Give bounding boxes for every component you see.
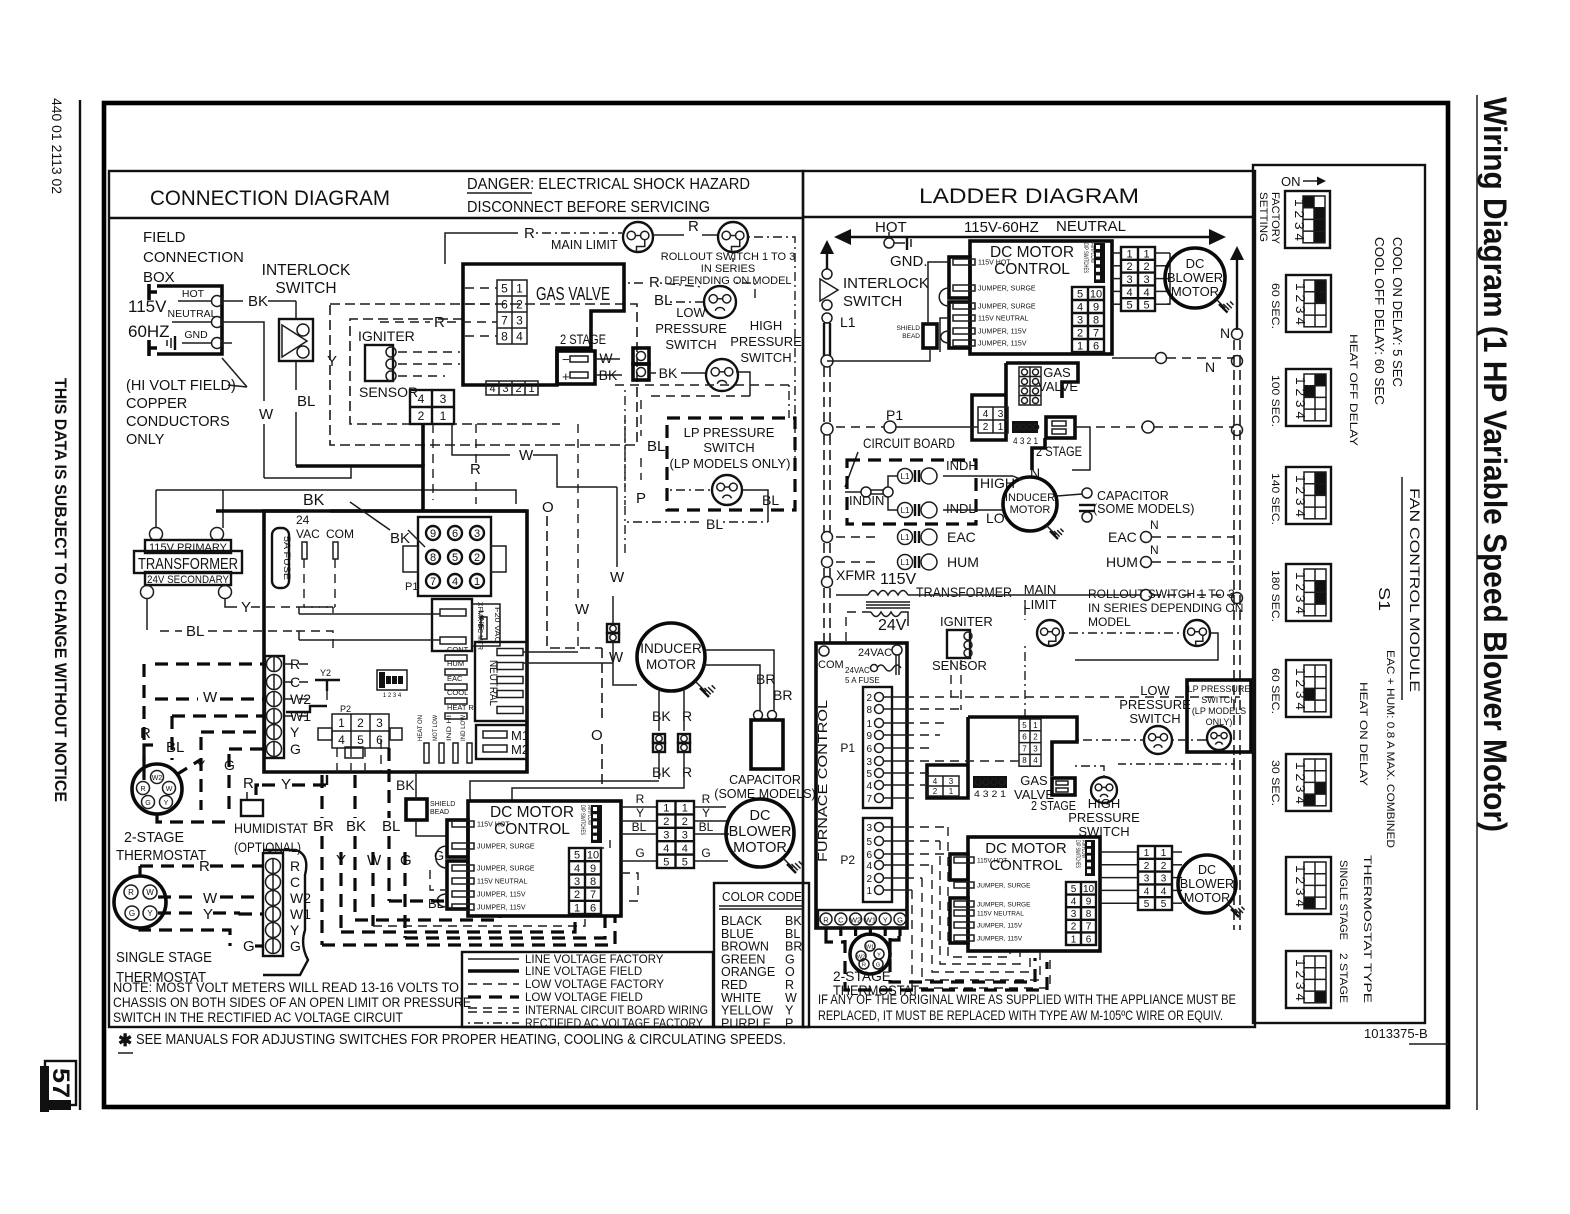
svg-text:1: 1	[1077, 340, 1083, 352]
svg-text:10: 10	[1090, 288, 1102, 300]
dip switch 30 sec	[1286, 754, 1331, 811]
ladder limit wires	[1063, 632, 1184, 634]
left rail	[823, 367, 825, 424]
terminal G upper strip	[267, 742, 282, 757]
svg-text:ON: ON	[1281, 174, 1301, 189]
legend rectified ac voltage factory	[468, 1022, 519, 1024]
circuit board outline	[264, 511, 527, 772]
svg-text:W: W	[203, 689, 218, 706]
svg-text:L1: L1	[901, 472, 910, 481]
pin pair R	[678, 734, 690, 743]
svg-text:PURPLE: PURPLE	[721, 1016, 771, 1030]
ladder 4321 strip	[1012, 421, 1038, 433]
svg-text:1: 1	[1143, 248, 1149, 260]
svg-text:SWITCH: SWITCH	[740, 350, 791, 365]
right rail junction xfmr row	[1141, 590, 1152, 601]
svg-text:7: 7	[430, 576, 436, 588]
svg-text:COOL ON DELAY: 5 SEC: COOL ON DELAY: 5 SEC	[1390, 237, 1405, 387]
svg-text:COM: COM	[326, 527, 354, 541]
wire neutral slot 1 to W	[523, 651, 578, 653]
svg-text:P1: P1	[840, 741, 855, 755]
ladder lower quad connector	[927, 776, 959, 796]
harness vertical BL	[387, 748, 390, 818]
svg-text:Y: Y	[147, 909, 153, 918]
svg-text:4: 4	[866, 861, 872, 872]
svg-text:GND: GND	[184, 329, 208, 341]
svg-text:LADDER DIAGRAM: LADDER DIAGRAM	[919, 185, 1139, 208]
pin pair W inducer	[607, 624, 619, 633]
svg-text:4: 4	[574, 863, 580, 875]
svg-text:LIMIT: LIMIT	[1023, 597, 1056, 612]
LP pressure switch contact	[712, 475, 742, 505]
svg-text:7: 7	[1022, 744, 1027, 753]
capacitor C1	[754, 711, 763, 720]
svg-text:G: G	[897, 916, 903, 925]
svg-text:R: R	[524, 225, 535, 242]
svg-text:GAS: GAS	[1020, 773, 1048, 788]
svg-text:5: 5	[1077, 288, 1083, 300]
svg-text:1: 1	[440, 409, 447, 423]
pin pair BK	[653, 734, 665, 743]
ladder rollout switch	[1184, 620, 1210, 646]
svg-text:2: 2	[933, 787, 938, 796]
svg-text:NEUTRAL: NEUTRAL	[1056, 218, 1126, 235]
furnace P2 connector	[863, 818, 892, 902]
svg-text:SWITCH: SWITCH	[1129, 711, 1180, 726]
connection diagram panel frame	[109, 171, 803, 1027]
wire from high pressure right	[736, 372, 750, 396]
dc motor control slots	[452, 821, 474, 827]
ladder harness staircase	[905, 696, 1240, 698]
inducer ground	[695, 681, 706, 692]
svg-text:W2: W2	[152, 775, 163, 782]
svg-text:XFMR: XFMR	[836, 567, 876, 583]
svg-text:W1: W1	[290, 906, 311, 922]
svg-text:Y: Y	[203, 906, 213, 923]
ladder 24V coil	[871, 612, 901, 617]
svg-text:4: 4	[1161, 886, 1167, 897]
furnace board edge blob	[263, 850, 308, 975]
svg-text:24: 24	[296, 513, 310, 527]
svg-text:DANGER: ELECTRICAL SHOCK HAZA: DANGER: ELECTRICAL SHOCK HAZARD	[467, 176, 750, 193]
svg-text:4: 4	[452, 576, 458, 588]
svg-text:60HZ: 60HZ	[128, 322, 170, 341]
svg-text:9: 9	[590, 863, 596, 875]
svg-text:−: −	[562, 352, 570, 367]
svg-text:HEAT ON: HEAT ON	[417, 715, 424, 741]
indin enclosure	[847, 460, 976, 524]
svg-text:BK: BK	[390, 530, 410, 547]
svg-text:SENSOR: SENSOR	[932, 658, 987, 673]
svg-text:3: 3	[574, 876, 580, 888]
terminal Y upper strip	[267, 725, 282, 740]
2-stage thermostat leads	[144, 745, 160, 770]
svg-text:DC: DC	[1198, 863, 1216, 877]
svg-text:S1: S1	[1375, 587, 1392, 611]
wire W from 2stage connector	[595, 358, 620, 360]
svg-text:MOTOR: MOTOR	[1010, 504, 1051, 516]
svg-text:3: 3	[1033, 744, 1038, 753]
svg-text:BLOWER: BLOWER	[1167, 270, 1223, 285]
svg-text:100 SEC.: 100 SEC.	[1269, 375, 1281, 427]
legend box	[462, 952, 713, 1027]
svg-text:2: 2	[682, 816, 688, 828]
furnace terminal W2	[850, 913, 862, 925]
igniter lead dashes	[398, 351, 460, 353]
svg-text:2: 2	[866, 693, 872, 704]
wire W dashed vertical	[577, 424, 579, 598]
P1 pin 7	[426, 574, 440, 588]
furnace control COM terminal	[819, 646, 829, 656]
svg-text:4 3 2 1: 4 3 2 1	[1013, 436, 1038, 446]
svg-text:Y: Y	[883, 916, 888, 925]
svg-text:1: 1	[1144, 848, 1150, 859]
ladder dcmc jumper arcs	[939, 288, 949, 306]
terminal strip R C W2 W1 Y G upper	[265, 656, 284, 758]
svg-text:LP PRESSURE: LP PRESSURE	[684, 425, 775, 440]
svg-text:180 SEC.: 180 SEC.	[1269, 570, 1281, 622]
svg-text:L1: L1	[901, 506, 910, 515]
svg-text:1: 1	[528, 383, 534, 395]
dcmc2 grid 5-10	[1066, 882, 1096, 945]
P1 pin 4	[448, 574, 462, 588]
svg-text:1 2 3 4: 1 2 3 4	[1293, 668, 1307, 710]
svg-text:F20 VAC: F20 VAC	[493, 607, 500, 643]
wire BR to capacitor right	[705, 650, 774, 711]
svg-text:115V NEUTRAL: 115V NEUTRAL	[977, 911, 1024, 918]
svg-text:BR: BR	[313, 818, 334, 835]
svg-text:AIRFLOW: AIRFLOW	[1089, 243, 1095, 263]
svg-text:3: 3	[376, 716, 383, 730]
svg-text:AIRFLOW: AIRFLOW	[586, 805, 592, 825]
sidebar frame	[1253, 165, 1425, 1023]
ladder high pressure switch	[1091, 777, 1117, 803]
wire R to blower connector	[621, 806, 657, 808]
svg-text:MOTOR: MOTOR	[646, 657, 696, 672]
svg-text:PRESSURE: PRESSURE	[1119, 697, 1191, 712]
svg-text:DIP SWITCHES: DIP SWITCHES	[1074, 840, 1080, 868]
svg-text:1: 1	[474, 576, 480, 588]
svg-text:HIGH: HIGH	[1088, 796, 1121, 811]
ladder gas valve assembly	[1006, 363, 1078, 398]
svg-text:5: 5	[866, 837, 872, 848]
low pressure switch LPS	[704, 286, 736, 318]
svg-text:W: W	[609, 649, 624, 666]
svg-text:CIRCUIT BOARD: CIRCUIT BOARD	[863, 435, 955, 451]
svg-text:R: R	[140, 725, 151, 742]
svg-text:FIELD: FIELD	[143, 229, 186, 246]
ladder dc blower motor 2	[1178, 855, 1236, 913]
svg-text:4: 4	[933, 777, 938, 786]
wire G blower side	[694, 860, 728, 862]
dip switch single stage	[1286, 857, 1331, 914]
wire BL to blower connector	[621, 833, 657, 835]
svg-text:P2: P2	[340, 704, 351, 714]
svg-text:2: 2	[357, 716, 364, 730]
jumper arc G	[436, 846, 447, 868]
svg-text:140 SEC.: 140 SEC.	[1269, 473, 1281, 525]
svg-text:CONNECTION DIAGRAM: CONNECTION DIAGRAM	[150, 187, 390, 210]
svg-text:W2: W2	[850, 916, 861, 925]
svg-text:3: 3	[516, 313, 523, 327]
svg-text:2: 2	[983, 422, 989, 433]
svg-text:W2: W2	[290, 890, 311, 906]
svg-text:JUMPER, 115V: JUMPER, 115V	[477, 905, 526, 912]
svg-text:HUM: HUM	[1106, 554, 1138, 570]
svg-text:HUM: HUM	[447, 659, 464, 668]
left rail junction 2	[821, 423, 833, 435]
furnace terminal W1	[864, 913, 876, 925]
svg-text:THERMOSTAT TYPE: THERMOSTAT TYPE	[1361, 855, 1373, 1003]
bottom tiny connector slots	[424, 743, 429, 763]
svg-text:IN SERIES: IN SERIES	[701, 263, 755, 275]
furnace terminal R	[820, 913, 832, 925]
igniter dashed drops	[950, 660, 952, 697]
terminal NEUTRAL	[212, 317, 223, 328]
svg-text:3: 3	[663, 829, 669, 841]
svg-text:1: 1	[866, 719, 872, 730]
svg-text:N: N	[1030, 465, 1040, 481]
svg-text:4: 4	[1143, 287, 1149, 299]
dcmc2 slots	[954, 857, 974, 863]
svg-text:CONT: CONT	[447, 645, 469, 654]
svg-text:6: 6	[590, 902, 596, 914]
svg-text:HOT: HOT	[875, 219, 907, 236]
svg-text:DIP SWITCHES: DIP SWITCHES	[1082, 243, 1088, 273]
svg-text:1 2 3 4: 1 2 3 4	[1293, 865, 1307, 907]
svg-text:Y2: Y2	[320, 668, 331, 678]
wire hot factory bus	[156, 490, 516, 504]
inner dashed enclosure	[350, 319, 560, 424]
svg-text:1: 1	[1071, 934, 1077, 945]
svg-text:1: 1	[1161, 848, 1167, 859]
svg-text:BL: BL	[647, 438, 665, 455]
svg-text:LINE VOLTAGE FACTORY: LINE VOLTAGE FACTORY	[525, 954, 664, 966]
svg-text:MOTOR: MOTOR	[1184, 891, 1230, 905]
P1 pin 2	[470, 550, 484, 564]
svg-text:1: 1	[682, 803, 688, 815]
svg-text:CAPACITOR: CAPACITOR	[729, 773, 801, 787]
svg-text:440 01 2113 02: 440 01 2113 02	[49, 98, 65, 194]
120VAC LINE connector	[472, 604, 500, 646]
ladder thermostat leads	[824, 928, 827, 936]
svg-text:P2: P2	[840, 853, 855, 867]
P1 pin 3	[470, 526, 484, 540]
svg-text:CHASSIS ON BOTH SIDES OF AN OP: CHASSIS ON BOTH SIDES OF AN OPEN LIMIT O…	[113, 995, 471, 1010]
svg-text:JUMPER, 115V: JUMPER, 115V	[977, 923, 1023, 930]
svg-text:Y: Y	[636, 806, 644, 820]
quad connector 43 21	[410, 390, 454, 424]
high pressure switch HPS	[706, 359, 738, 391]
P1 pin 9	[426, 526, 440, 540]
furnace P2 pin 4	[875, 861, 884, 870]
rollout switch RS1	[718, 222, 748, 252]
svg-text:4: 4	[1071, 897, 1077, 908]
wire BK from 2stage connector	[595, 374, 622, 376]
svg-text:JUMPER, SURGE: JUMPER, SURGE	[977, 883, 1031, 890]
svg-text:8: 8	[501, 329, 508, 343]
ladder diagram panel frame	[803, 171, 1255, 1027]
wire main limit R	[445, 233, 518, 264]
svg-text:SHIELD: SHIELD	[897, 325, 921, 332]
dcmc2 tab1	[950, 854, 968, 880]
svg-text:BR: BR	[773, 687, 792, 703]
svg-text:W: W	[146, 888, 154, 897]
ladder dcmc tab1	[949, 257, 970, 298]
svg-text:BL: BL	[186, 623, 204, 640]
rollout dash-dot wires right side	[748, 237, 795, 460]
svg-text:3: 3	[1126, 274, 1132, 286]
svg-text:HEAT RI: HEAT RI	[447, 703, 476, 712]
gas valve terminal grid	[497, 280, 527, 344]
svg-text:BK: BK	[652, 708, 671, 724]
svg-text:TRANSFORMER: TRANSFORMER	[916, 584, 1012, 600]
dashed low-voltage enclosure around igniter	[330, 304, 637, 445]
furnace P1 connector	[863, 687, 892, 808]
svg-text:W: W	[610, 569, 625, 586]
svg-text:INDL: INDL	[946, 501, 976, 516]
svg-text:Y: Y	[290, 922, 300, 938]
wires below P2	[336, 748, 338, 772]
svg-text:BL: BL	[762, 492, 779, 508]
24vac com dashed leads	[303, 559, 305, 607]
wire W solid from quad connector	[452, 424, 510, 455]
ladder N wire row1	[1156, 353, 1167, 364]
svg-text:R: R	[688, 218, 699, 235]
svg-text:HEAT OFF DELAY: HEAT OFF DELAY	[1347, 334, 1359, 447]
svg-text:GAS: GAS	[1043, 365, 1071, 380]
svg-text:115V NEUTRAL: 115V NEUTRAL	[978, 316, 1029, 323]
svg-text:1: 1	[866, 886, 872, 897]
svg-text:BL: BL	[699, 820, 714, 834]
wire BK from HOT to interlock	[223, 300, 243, 302]
ladder P2 harness	[905, 826, 948, 828]
ladder dc motor control 2	[968, 837, 1100, 951]
svg-text:2: 2	[1033, 733, 1038, 742]
svg-text:R: R	[823, 916, 829, 925]
wire G to blower connector	[621, 860, 657, 862]
svg-text:IGNITER: IGNITER	[940, 614, 993, 629]
dc blower motor M-BLW	[726, 799, 794, 867]
ladder 2-stage thermostat	[850, 934, 890, 974]
ladder N junction right	[1232, 356, 1243, 367]
P1 pin 1	[470, 574, 484, 588]
harness staircase dashes	[430, 870, 447, 890]
dashed W1 wire	[172, 714, 265, 717]
svg-text:C: C	[838, 916, 844, 925]
shield bead ladder	[923, 324, 937, 348]
svg-text:Y: Y	[327, 353, 337, 370]
two pin connector to high pressure switch	[633, 348, 649, 364]
svg-text:INDH: INDH	[946, 458, 978, 473]
svg-text:Y: Y	[290, 724, 300, 740]
svg-text:HIGH: HIGH	[750, 318, 783, 333]
terminal GND	[212, 338, 223, 349]
svg-text:6: 6	[376, 733, 383, 747]
svg-text:4: 4	[1144, 886, 1150, 897]
svg-text:MODEL: MODEL	[1088, 615, 1131, 629]
svg-text:5: 5	[1161, 899, 1167, 910]
svg-text:IF ANY OF THE ORIGINAL WIRE AS: IF ANY OF THE ORIGINAL WIRE AS SUPPLIED …	[818, 992, 1236, 1007]
svg-text:2: 2	[1126, 261, 1132, 273]
svg-text:115V HOT: 115V HOT	[978, 260, 1011, 267]
furnace control box	[816, 643, 907, 928]
svg-text:6: 6	[501, 297, 508, 311]
svg-text:5: 5	[1071, 884, 1077, 895]
svg-text:G: G	[129, 909, 135, 918]
svg-text:HUM: HUM	[947, 554, 979, 570]
svg-text:DC MOTOR: DC MOTOR	[990, 244, 1074, 261]
dip switch factory setting	[1285, 191, 1330, 248]
jumper arc BL	[437, 894, 447, 907]
dip switch 140 sec	[1286, 467, 1331, 524]
wire dash-dot LP vertical	[624, 420, 626, 505]
svg-text:9: 9	[1093, 301, 1099, 313]
svg-text:COOL: COOL	[447, 688, 468, 697]
ladder capacitor	[1057, 494, 1082, 496]
svg-text:24VAC: 24VAC	[845, 666, 870, 675]
svg-text:O: O	[591, 727, 603, 744]
svg-text:BLOWER: BLOWER	[1180, 877, 1234, 891]
P1 pin 6	[448, 526, 462, 540]
svg-text:FACTORY: FACTORY	[1269, 192, 1281, 245]
svg-text:3: 3	[949, 777, 954, 786]
svg-text:2 STAGE: 2 STAGE	[1337, 953, 1349, 1003]
terminal R upper strip	[267, 657, 282, 672]
svg-text:INDUCER: INDUCER	[1005, 492, 1055, 504]
svg-text:R: R	[434, 314, 445, 331]
svg-text:60 SEC.: 60 SEC.	[1269, 668, 1281, 714]
svg-text:JUMPER, SURGE: JUMPER, SURGE	[978, 286, 1036, 293]
harness horizontal runs to dc motor control	[355, 916, 500, 920]
terminal W1 upper strip	[267, 709, 282, 724]
svg-text:TRANSFORMER: TRANSFORMER	[138, 556, 238, 573]
svg-text:24V SECONDARY: 24V SECONDARY	[147, 574, 230, 586]
svg-text:FURNACE CONTROL: FURNACE CONTROL	[815, 700, 830, 862]
wire from xfmr connector left	[299, 613, 440, 615]
P1 pin 8	[426, 550, 440, 564]
ladder right rail junction row2	[1232, 425, 1243, 436]
svg-text:2 STAGE: 2 STAGE	[1031, 798, 1076, 813]
ladder 2stage plusminus	[1046, 417, 1075, 438]
svg-text:G: G	[701, 846, 710, 860]
wire BL blower side	[694, 833, 729, 835]
ladder dc blower motor	[1165, 248, 1225, 308]
XFMR DC MTR connector	[432, 599, 472, 651]
svg-text:LOW VOLTAGE FIELD: LOW VOLTAGE FIELD	[525, 992, 643, 1004]
furnace terminal G	[894, 913, 906, 925]
ladder hot neutral arrow	[846, 236, 1214, 238]
furnace P1 pin 5	[875, 769, 884, 778]
dash under high pressure row	[615, 384, 789, 386]
svg-text:5: 5	[574, 850, 580, 862]
color code box	[714, 883, 809, 1027]
svg-text:Y: Y	[281, 776, 291, 793]
wire Y R bold down	[326, 775, 328, 785]
svg-text:2: 2	[1077, 327, 1083, 339]
wire from GND	[223, 342, 232, 344]
svg-text:7: 7	[501, 313, 508, 327]
dc motor control ladder top	[970, 241, 1112, 354]
svg-text:JUMPER, 115V: JUMPER, 115V	[978, 329, 1027, 336]
svg-text:SEE MANUALS FOR ADJUSTING SWIT: SEE MANUALS FOR ADJUSTING SWITCHES FOR P…	[136, 1032, 786, 1048]
ladder bold wire gasvalve to inducer	[1032, 438, 1045, 470]
blower ground	[783, 858, 793, 868]
svg-text:8: 8	[1093, 314, 1099, 326]
svg-text:3: 3	[474, 528, 480, 540]
svg-text:COM: COM	[818, 659, 844, 671]
terminal C upper strip	[267, 675, 282, 690]
